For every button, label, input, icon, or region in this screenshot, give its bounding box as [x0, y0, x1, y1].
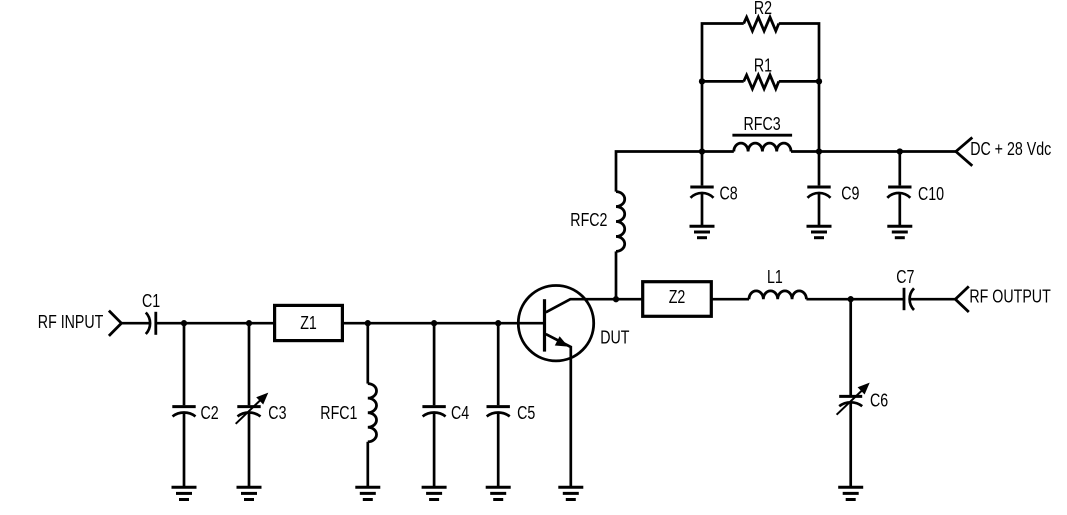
- svg-text:C5: C5: [517, 403, 535, 423]
- svg-text:C6: C6: [870, 391, 888, 411]
- svg-text:R1: R1: [754, 56, 772, 76]
- svg-text:R2: R2: [754, 0, 772, 18]
- svg-text:Z1: Z1: [300, 314, 317, 334]
- svg-text:C3: C3: [268, 403, 286, 423]
- svg-text:C4: C4: [451, 403, 469, 423]
- svg-text:C9: C9: [841, 184, 859, 204]
- svg-text:Z2: Z2: [669, 287, 686, 307]
- svg-text:DC + 28 Vdc: DC + 28 Vdc: [970, 140, 1051, 160]
- svg-text:RFC1: RFC1: [320, 403, 357, 423]
- svg-text:C2: C2: [201, 403, 219, 423]
- svg-text:RF INPUT: RF INPUT: [38, 312, 104, 332]
- svg-text:C8: C8: [720, 184, 738, 204]
- svg-text:RFC3: RFC3: [744, 114, 781, 134]
- svg-text:C1: C1: [142, 292, 160, 312]
- svg-text:RFC2: RFC2: [570, 210, 607, 230]
- svg-text:L1: L1: [767, 267, 783, 287]
- svg-text:C10: C10: [918, 185, 944, 205]
- svg-text:RF OUTPUT: RF OUTPUT: [969, 287, 1050, 307]
- svg-text:DUT: DUT: [600, 328, 629, 348]
- svg-text:C7: C7: [896, 267, 914, 287]
